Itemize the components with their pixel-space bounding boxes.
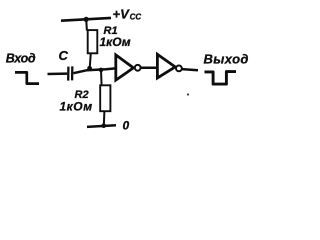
svg-text:0: 0 [123, 119, 130, 133]
input pulse waveform [15, 72, 39, 83]
resistor R1 top lead [85, 19, 88, 30]
resistor R2 body [100, 85, 110, 111]
node: R2 to ground rail junction [101, 123, 106, 128]
inverter U1 output bubble [135, 65, 141, 71]
wire: U1 output to U2 input [141, 67, 157, 70]
wire: capacitor to inverter 1 input [73, 68, 115, 73]
resistor R2 top lead [100, 70, 103, 86]
svg-text:C: C [59, 48, 69, 63]
speck artifact [187, 93, 189, 95]
resistor R1 body [88, 30, 98, 53]
wire: U2 output [182, 69, 198, 70]
capacitor C right plate [71, 66, 74, 80]
inverter U2 triangle [157, 54, 175, 78]
wire: input to capacitor [48, 72, 68, 75]
resistor R1 bottom lead [90, 53, 91, 68]
svg-text:Вход: Вход [6, 52, 36, 66]
capacitor C left plate [67, 67, 70, 81]
svg-text:CC: CC [130, 13, 142, 22]
svg-text:1кОм: 1кОм [60, 100, 93, 114]
svg-text:Выход: Выход [204, 51, 249, 66]
node: R2 to signal line junction [99, 68, 104, 73]
svg-text:1кОм: 1кОм [100, 35, 131, 49]
svg-text:+V: +V [113, 6, 131, 21]
output pulse waveform [205, 72, 237, 85]
resistor R2 bottom lead [103, 111, 106, 125]
junction dot on Vcc rail [84, 17, 89, 22]
ground rail 0 [87, 125, 116, 127]
node: R1 to signal line junction [87, 66, 92, 71]
inverter U1 triangle [116, 55, 134, 80]
+Vcc rail [61, 18, 111, 21]
inverter U2 output bubble [176, 66, 182, 72]
